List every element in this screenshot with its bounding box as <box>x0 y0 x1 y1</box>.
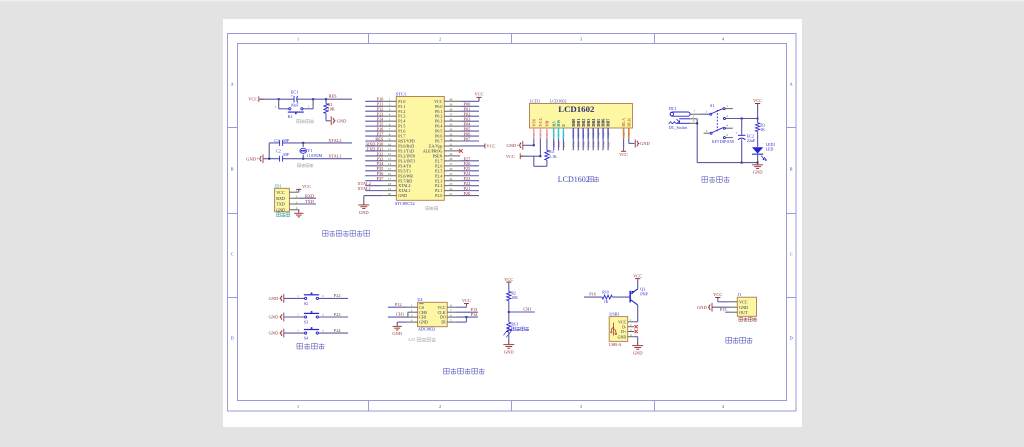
wire R10 to Q1 base <box>612 296 629 298</box>
wire MCU left row 17 net P37 <box>365 180 381 182</box>
wire S4 to net P24 <box>319 332 349 334</box>
svg-text:XTAL1: XTAL1 <box>358 186 371 191</box>
svg-text:15: 15 <box>388 167 392 171</box>
wire MCU left row 1 net P10 <box>365 100 381 102</box>
no-ERC marker on D+ <box>635 330 638 333</box>
wire TXD <box>299 203 316 205</box>
wires LCD control and data pins <box>553 139 555 151</box>
node junction crystal top <box>302 142 304 144</box>
wire MCU right row 14 net P26 <box>460 165 479 167</box>
switch S1 throw 4 <box>723 127 725 129</box>
pin 10 of MCU (left) <box>381 145 397 147</box>
power port GND (backlight) <box>634 139 637 147</box>
svg-text:JD1: JD1 <box>275 183 282 188</box>
power ground (divider) <box>508 341 510 344</box>
svg-text:D: D <box>231 336 234 341</box>
capacitor C1 <box>278 140 281 146</box>
pins of J1 <box>730 301 738 303</box>
schematic sheet <box>223 19 802 427</box>
wire MCU right row 20 net P20 <box>460 195 479 197</box>
pin 27 of MCU (right) <box>444 165 460 167</box>
wire Q1 collector to USB <box>637 305 639 322</box>
push button S2 <box>305 297 307 299</box>
node junction VCC rail <box>757 118 759 120</box>
power port VCC (J1) <box>717 298 719 302</box>
svg-text:P2.0: P2.0 <box>435 193 442 198</box>
capacitor C2 <box>278 156 281 162</box>
svg-text:C1: C1 <box>274 138 279 143</box>
svg-text:13: 13 <box>388 157 392 161</box>
svg-text:BLK: BLK <box>626 117 631 127</box>
wire divider middle <box>508 301 510 322</box>
svg-text:GND: GND <box>359 210 369 215</box>
wire CLK net P13 <box>456 311 478 313</box>
zone row ticks <box>228 127 238 129</box>
USB connector USB1 body <box>609 317 628 342</box>
svg-text:VCC: VCC <box>302 184 311 189</box>
pin 17 of MCU (left) <box>381 180 397 182</box>
wire MCU GND pin 20 <box>364 195 381 197</box>
wire GND to C2 <box>264 158 280 160</box>
pin 25 of MCU (right) <box>444 175 460 177</box>
pin 35 of MCU (right) <box>444 125 460 127</box>
connector J1 body <box>737 297 756 316</box>
svg-text:P37: P37 <box>377 176 385 181</box>
svg-text:16: 16 <box>388 172 392 176</box>
wire MCU right row 13 net P27 <box>460 160 479 162</box>
pin 12 of MCU (left) <box>381 155 397 157</box>
wire RXD <box>299 197 316 199</box>
wire MCU left row 11 net TXD P31 <box>365 150 381 152</box>
wire C1 to XTAL2 <box>282 142 352 144</box>
svg-text:19: 19 <box>388 187 392 191</box>
svg-text:LCD1602: LCD1602 <box>558 104 595 114</box>
power port GND (reset) <box>330 116 333 125</box>
svg-text:Y1: Y1 <box>307 148 312 153</box>
svg-text:VCC: VCC <box>739 299 748 304</box>
svg-text:15: 15 <box>622 132 626 136</box>
svg-text:21: 21 <box>449 192 453 196</box>
pin 24 of MCU (right) <box>444 180 460 182</box>
pin 1 of MCU (left) <box>381 100 397 102</box>
op-amp U1 MCU STC89C52 body <box>396 97 444 201</box>
push button S4 <box>305 332 307 334</box>
svg-text:GND: GND <box>392 331 402 336</box>
svg-text:VD: VD <box>545 121 550 127</box>
svg-text:E: E <box>561 124 566 127</box>
title danpianji-zuixiao-xitong (MCU minimal system) <box>322 231 369 237</box>
svg-text:VCC: VCC <box>248 97 257 102</box>
pin 6 of MCU (left) <box>381 125 397 127</box>
svg-text:GND: GND <box>276 207 285 212</box>
svg-text:USB1: USB1 <box>609 312 619 317</box>
wire GND to S4 <box>284 332 305 334</box>
wire MCU left row 3 net P12 <box>365 110 381 112</box>
svg-text:C: C <box>790 252 793 257</box>
wire MCU left row 12 net P32 <box>365 155 381 157</box>
svg-text:3: 3 <box>580 36 582 41</box>
svg-text:D: D <box>790 336 793 341</box>
pin 16 of MCU (left) <box>381 175 397 177</box>
wire MCU right row 2 net P00 <box>460 105 479 107</box>
node junction DO-DI <box>465 316 467 318</box>
wire GND to S3 <box>284 316 305 318</box>
svg-text:31: 31 <box>449 142 453 146</box>
svg-text:LCD1602: LCD1602 <box>550 99 567 104</box>
svg-text:25: 25 <box>449 172 453 176</box>
svg-text:1K: 1K <box>760 128 765 132</box>
svg-text:11: 11 <box>388 147 391 151</box>
svg-text:22uF: 22uF <box>747 138 756 143</box>
pin 7 of MCU (left) <box>381 130 397 132</box>
power ground (JD1) <box>298 210 300 213</box>
svg-text:13: 13 <box>601 132 605 136</box>
wire VCC to EC1 <box>259 98 294 100</box>
pins of U4 right <box>447 306 456 308</box>
svg-text:22: 22 <box>449 187 453 191</box>
svg-text:U4: U4 <box>417 297 423 302</box>
node junction divider <box>508 311 510 313</box>
svg-text:10uF: 10uF <box>290 103 299 108</box>
wire MCU left row 13 net P33 <box>365 160 381 162</box>
svg-text:TXD: TXD <box>276 202 285 207</box>
svg-text:LED: LED <box>766 147 774 152</box>
wire USB VCC to collector <box>634 321 637 323</box>
svg-text:18: 18 <box>388 182 392 186</box>
outer border frame <box>228 34 797 412</box>
svg-text:14: 14 <box>606 132 610 136</box>
wire U4 GND <box>397 321 408 323</box>
zone column ticks <box>368 34 370 44</box>
svg-text:12: 12 <box>596 132 600 136</box>
svg-text:11.0592M: 11.0592M <box>307 154 323 158</box>
power port VCC (JD1) <box>296 188 301 191</box>
wire MCU right row 7 net P05 <box>460 130 479 132</box>
wire MCU VCC pin 40 <box>460 100 479 102</box>
svg-text:GND: GND <box>398 193 407 198</box>
pin 21 of MCU (right) <box>444 195 460 197</box>
wire MCU left row 14 net P34 <box>365 165 381 167</box>
svg-text:VSS: VSS <box>531 118 536 126</box>
svg-text:1: 1 <box>297 36 299 41</box>
pin 29 of MCU (right) <box>444 155 460 157</box>
wire MCU left row 15 net P35 <box>365 170 381 172</box>
wire RG1 to GND <box>508 332 510 341</box>
wire MCU left row 6 net P15 <box>365 125 381 127</box>
wire P12 to CS <box>388 306 408 308</box>
svg-text:EC1: EC1 <box>291 89 298 94</box>
svg-text:R4: R4 <box>549 150 554 154</box>
svg-text:GND: GND <box>753 170 763 175</box>
wire LCD BLA down <box>623 139 625 149</box>
pin 36 of MCU (right) <box>444 120 460 122</box>
svg-text:35: 35 <box>449 122 453 126</box>
pin 32 of MCU (right) <box>444 140 460 142</box>
wire S3 to net P23 <box>319 316 349 318</box>
svg-text:LCD1602: LCD1602 <box>558 175 590 184</box>
wire J1 OUT net P15 <box>725 311 729 313</box>
pin 5 of MCU (left) <box>381 120 397 122</box>
wire MCU right row 5 net P03 <box>460 120 479 122</box>
svg-text:23: 23 <box>449 182 453 186</box>
node junction EC2 bottom <box>741 162 743 164</box>
wire GND to S2 <box>284 297 305 299</box>
svg-text:30P: 30P <box>283 152 290 157</box>
wire MCU right row 16 net P24 <box>460 175 479 177</box>
LCD1 module body <box>530 104 633 129</box>
pin 22 of MCU (right) <box>444 190 460 192</box>
wire MCU right row 15 net P25 <box>460 170 479 172</box>
svg-text:36: 36 <box>449 117 453 121</box>
svg-text:GND: GND <box>419 320 428 325</box>
svg-text:OUT: OUT <box>739 310 748 315</box>
svg-text:2: 2 <box>439 36 441 41</box>
wire MCU right row 6 net P04 <box>460 125 479 127</box>
svg-text:26: 26 <box>449 167 453 171</box>
capacitor EC1 <box>293 96 296 103</box>
switch S1 throw 1 <box>723 108 725 110</box>
pin 38 of MCU (right) <box>444 110 460 112</box>
svg-text:VCC: VCC <box>753 98 762 103</box>
wire MCU right row 9 net P07 <box>460 140 479 142</box>
svg-text:GND: GND <box>506 143 516 148</box>
DC socket DC1 <box>670 112 690 116</box>
svg-text:R2: R2 <box>511 292 516 296</box>
svg-text:10K: 10K <box>511 296 518 300</box>
svg-text:PNP: PNP <box>640 291 648 296</box>
svg-text:3: 3 <box>580 404 582 409</box>
no-ERC marker on ALE/PROG <box>459 149 463 153</box>
pin 26 of MCU (right) <box>444 170 460 172</box>
push button K1 <box>289 108 291 110</box>
wire LCD BLK to GND <box>628 139 630 144</box>
pin 9 of MCU (left) <box>381 140 397 142</box>
wire MCU left row 9 net RES <box>365 140 381 142</box>
svg-text:DI: DI <box>441 320 446 325</box>
pin 31 of MCU (right) <box>444 145 460 147</box>
annotation danpianji (MCU) <box>426 207 438 210</box>
svg-text:34: 34 <box>449 127 453 131</box>
power ground (power supply) <box>757 161 759 164</box>
wire USB GND <box>634 336 637 338</box>
svg-text:2: 2 <box>439 404 441 409</box>
svg-text:1: 1 <box>297 404 299 409</box>
pin 28 of MCU (right) <box>444 160 460 162</box>
pin 15 of MCU (left) <box>381 170 397 172</box>
svg-text:P14: P14 <box>471 312 479 317</box>
wire vertical GND branch <box>268 143 270 159</box>
svg-text:DC1: DC1 <box>669 106 677 111</box>
wire MCU left row 8 net P17 <box>365 135 381 137</box>
svg-text:VCC: VCC <box>474 92 483 97</box>
power port VCC (U4) <box>465 304 467 307</box>
wire U4 VCC <box>456 306 467 308</box>
wire DC1 ground rail down <box>696 119 698 163</box>
wire MCU left row 16 net P36 <box>365 175 381 177</box>
pin 14 of MCU (left) <box>381 165 397 167</box>
svg-text:GND: GND <box>269 296 279 301</box>
svg-text:P16: P16 <box>589 292 597 297</box>
label guangmin-dianzu (photoresistor) <box>512 327 529 331</box>
inner border frame <box>238 44 787 401</box>
switch S1 throw 6 <box>723 137 725 139</box>
svg-text:GND: GND <box>337 118 347 123</box>
push button S3 <box>305 316 307 318</box>
wire MCU left row 5 net P14 <box>365 120 381 122</box>
wire EC1 to R1 / RES <box>297 98 352 100</box>
svg-text:KFT DIP-8X8: KFT DIP-8X8 <box>712 140 734 144</box>
svg-text:39: 39 <box>449 103 453 107</box>
pin 30 of MCU (right) <box>444 150 460 152</box>
svg-text:DB7: DB7 <box>606 119 611 127</box>
svg-text:DC_Socket: DC_Socket <box>669 125 688 130</box>
capacitor EC2 <box>741 119 743 135</box>
LED LED1 <box>752 147 763 153</box>
svg-text:VCC: VCC <box>506 154 515 159</box>
node junction EC2 top <box>741 118 743 120</box>
wire LCD VSS down <box>533 139 535 146</box>
svg-text:GND: GND <box>246 156 256 161</box>
svg-text:GND: GND <box>697 305 707 310</box>
wire GND to VSS <box>523 144 534 146</box>
wire branch to C1 <box>269 142 279 144</box>
part label renti-hongwai (infrared) <box>739 317 757 321</box>
svg-text:J1: J1 <box>738 292 742 297</box>
svg-text:CH1: CH1 <box>396 312 404 317</box>
wire C2 to XTAL1 <box>282 158 352 160</box>
svg-text:VCC: VCC <box>486 143 495 148</box>
wire MCU left row 7 net P16 <box>365 130 381 132</box>
svg-text:32: 32 <box>449 137 453 141</box>
wire J1 GND <box>712 306 729 308</box>
crystal Y1 <box>302 143 304 147</box>
switch S1 mechanical link <box>716 110 718 132</box>
pin 2 of MCU (left) <box>381 105 397 107</box>
pin 11 of MCU (left) <box>381 150 397 152</box>
svg-text:C2: C2 <box>276 148 281 153</box>
wire MCU right row 4 net P02 <box>460 115 479 117</box>
no-ERC marker on D- <box>635 325 638 328</box>
wire MCU right row 8 net P06 <box>460 135 479 137</box>
title renti-hongwai (human infrared) <box>726 337 753 343</box>
svg-text:S4: S4 <box>304 336 308 341</box>
svg-text:S2: S2 <box>304 301 308 306</box>
wire bottom ground rail (power) <box>697 162 758 164</box>
wire P16 to R10 <box>584 296 602 298</box>
svg-text:S1: S1 <box>710 103 714 108</box>
svg-text:VCC: VCC <box>276 190 285 195</box>
node junction LED bottom <box>757 162 759 164</box>
wire LCD VD down <box>546 139 548 151</box>
svg-text:+: + <box>291 94 293 98</box>
svg-text:P12: P12 <box>395 302 402 307</box>
svg-text:30P: 30P <box>283 138 290 143</box>
pin 34 of MCU (right) <box>444 130 460 132</box>
wire VCC rail (LCD) <box>521 155 540 157</box>
annotation anjian-fuwei (key reset) <box>297 119 314 123</box>
svg-text:VCC: VCC <box>633 273 642 278</box>
pins of USB1 <box>628 321 635 323</box>
svg-text:A: A <box>231 82 234 87</box>
svg-text:12: 12 <box>388 152 392 156</box>
svg-text:17: 17 <box>388 177 392 181</box>
svg-text:P23: P23 <box>334 312 341 317</box>
svg-text:STC89C52: STC89C52 <box>395 201 415 206</box>
wire MCU left row 4 net P13 <box>365 115 381 117</box>
svg-text:A: A <box>790 82 793 87</box>
svg-text:RXD: RXD <box>276 196 285 201</box>
wire MCU right row 19 net P21 <box>460 190 479 192</box>
resistor R3 <box>757 119 759 123</box>
pin 33 of MCU (right) <box>444 135 460 137</box>
title duli-anjian (independent buttons) <box>297 343 325 349</box>
svg-text:P22: P22 <box>334 293 341 298</box>
photoresistor RG1 <box>507 322 511 332</box>
svg-text:GND: GND <box>618 334 627 339</box>
svg-text:K1: K1 <box>288 114 293 119</box>
svg-text:16: 16 <box>627 132 631 136</box>
svg-text:RG1: RG1 <box>511 322 518 326</box>
pin 18 of MCU (left) <box>381 185 397 187</box>
switch S1 common B <box>710 132 712 134</box>
pin 4 of MCU (left) <box>381 115 397 117</box>
svg-text:XTAL2: XTAL2 <box>328 138 341 143</box>
svg-text:TXD: TXD <box>305 199 314 204</box>
svg-text:+: + <box>736 131 738 135</box>
connector JD1 (download port) <box>275 188 290 212</box>
svg-text:30: 30 <box>449 147 453 151</box>
wire MCU right row 3 net P01 <box>460 110 479 112</box>
wire MCU right row 17 net P23 <box>460 180 479 182</box>
power ground (USB) <box>637 342 639 345</box>
svg-text:GND: GND <box>504 350 514 355</box>
pin 20 of MCU (left) <box>381 195 397 197</box>
transistor Q1 <box>629 291 631 303</box>
svg-text:5.1K: 5.1K <box>549 155 557 159</box>
svg-text:ADC0832: ADC0832 <box>418 327 435 332</box>
wire branch right to K1 <box>312 99 314 109</box>
power ground (MCU) <box>363 201 365 204</box>
pin 13 of MCU (left) <box>381 160 397 162</box>
node junction at GND branch <box>268 158 270 160</box>
svg-text:VCC: VCC <box>504 277 513 282</box>
wire MCU left row 2 net P11 <box>365 105 381 107</box>
svg-text:10: 10 <box>586 132 590 136</box>
pins 1-4 of JD1 <box>289 191 298 193</box>
svg-text:B: B <box>790 167 793 172</box>
USB icon inside USB1 <box>611 323 615 336</box>
pin 39 of MCU (right) <box>444 105 460 107</box>
svg-text:STC1: STC1 <box>396 91 406 96</box>
wire branch left to K1 <box>278 99 280 109</box>
svg-text:P24: P24 <box>334 328 342 333</box>
wire DI tie <box>456 321 467 323</box>
svg-text:VCC: VCC <box>619 152 628 157</box>
svg-text:RXD: RXD <box>305 193 314 198</box>
node junction at R1 <box>325 98 327 100</box>
resistor R2 <box>507 291 511 300</box>
svg-text:10: 10 <box>388 142 392 146</box>
resistor R4 <box>545 150 549 160</box>
node junction LCD VCC <box>539 155 541 157</box>
svg-text:R10: R10 <box>602 290 608 294</box>
svg-text:10K: 10K <box>328 107 335 112</box>
svg-text:VCC: VCC <box>462 298 471 303</box>
pin 8 of MCU (left) <box>381 135 397 137</box>
svg-text:33: 33 <box>449 132 453 136</box>
title dianyuan-dianlu (power circuit) <box>702 177 730 183</box>
svg-text:11: 11 <box>591 132 595 135</box>
